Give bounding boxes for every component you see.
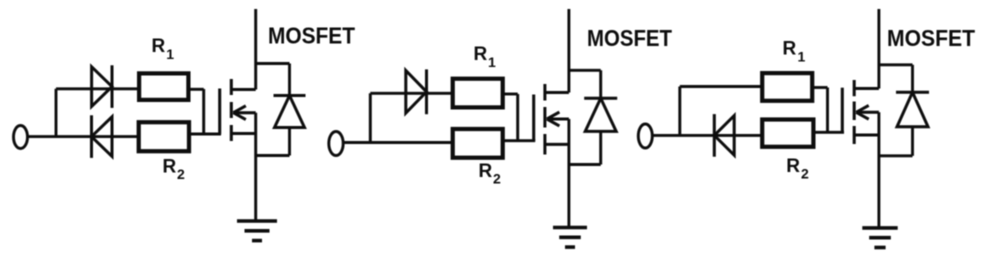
svg-text:2: 2	[493, 170, 501, 186]
diode D4 (bottom, left-pointing)	[714, 114, 734, 157]
svg-text:MOSFET: MOSFET	[587, 25, 672, 51]
wire body-diode bottom tail	[599, 131, 602, 164]
wire body-diode top drop	[288, 64, 291, 96]
wire gate junction vertical	[516, 94, 519, 141]
wire gate junction vertical	[202, 89, 205, 134]
input terminal node 1	[14, 126, 28, 149]
label MOSFET 3	[887, 25, 975, 51]
wire gate junction vertical	[826, 88, 829, 133]
resistor R1	[762, 73, 812, 101]
wire drain to body diode	[879, 63, 913, 66]
wire input to bottom branch	[28, 135, 139, 138]
svg-text:R: R	[163, 156, 177, 177]
wire top branch	[370, 92, 452, 95]
wire source down	[877, 112, 880, 228]
wire body-diode bottom tail	[288, 128, 291, 156]
resistor R1	[453, 79, 503, 108]
wire input to bottom branch	[652, 134, 762, 137]
wire R2 to gate plate	[503, 139, 536, 142]
svg-text:2: 2	[801, 165, 809, 181]
wire top branch	[56, 87, 139, 90]
label R2	[479, 161, 502, 186]
svg-text:1: 1	[166, 46, 174, 62]
svg-text:MOSFET: MOSFET	[887, 25, 975, 51]
label R2	[163, 156, 186, 182]
diode D1 (top, right-pointing)	[92, 65, 112, 108]
svg-text:R: R	[786, 156, 800, 177]
wire drain up	[877, 9, 880, 89]
transistor Q3 (gate plate, channel dashes, drain/source stubs, body arrow)	[842, 80, 879, 144]
wire R1 to gate	[188, 88, 203, 91]
transistor Q2 (gate plate, channel dashes, drain/source stubs, body arrow)	[534, 84, 569, 155]
wire body-diode top drop	[911, 65, 914, 93]
label MOSFET 1	[268, 22, 355, 48]
node junction vertical wire	[369, 93, 372, 142]
wire R1 to gate	[812, 86, 827, 89]
label R1	[783, 38, 806, 64]
label R1	[152, 36, 175, 62]
svg-text:1: 1	[798, 48, 806, 64]
svg-text:2: 2	[177, 166, 185, 182]
label MOSFET 2	[587, 25, 672, 51]
svg-text:R: R	[783, 38, 797, 59]
wire source to body diode	[256, 154, 290, 157]
svg-text:MOSFET: MOSFET	[268, 22, 355, 48]
node junction vertical wire	[55, 89, 58, 137]
wire source down	[254, 113, 257, 221]
resistor R1	[139, 73, 188, 100]
ground 1	[237, 221, 277, 241]
wire body-diode bottom tail	[911, 127, 914, 156]
wire R2 to gate plate	[813, 131, 844, 134]
wire body-diode top drop	[599, 70, 602, 98]
wire R1 to gate	[503, 93, 518, 96]
ground 2	[553, 228, 587, 248]
wire drain up	[567, 9, 570, 93]
diode D3 (top, right-pointing)	[406, 69, 427, 114]
wire drain up	[254, 9, 257, 90]
resistor R2	[762, 120, 813, 147]
resistor R2	[139, 122, 189, 151]
wire top branch	[680, 85, 762, 88]
ground 3	[862, 228, 897, 248]
wire drain to body diode	[569, 69, 601, 72]
wire drain to body diode	[256, 62, 290, 65]
label R1	[474, 44, 497, 70]
body diode DB3 (cathode bar + triangle)	[896, 92, 929, 126]
input terminal node 2	[329, 132, 343, 156]
body diode DB2 (cathode bar + triangle)	[584, 98, 617, 131]
wire input to R2	[343, 141, 453, 144]
wire source down	[567, 119, 570, 228]
input terminal node 3	[638, 124, 652, 148]
node junction vertical wire	[678, 87, 681, 136]
svg-text:R: R	[479, 161, 493, 182]
svg-text:R: R	[152, 36, 166, 57]
svg-text:R: R	[474, 44, 488, 65]
wire source to body diode	[879, 154, 913, 157]
transistor Q1 (gate plate, channel dashes, drain/source stubs, body arrow)	[220, 79, 256, 141]
wire R2 to gate plate	[189, 133, 221, 136]
resistor R2	[453, 129, 503, 158]
svg-text:1: 1	[488, 54, 496, 70]
wire source to body diode	[569, 163, 601, 166]
label R2	[786, 156, 809, 181]
body diode DB1 (cathode bar + triangle)	[274, 96, 306, 128]
diode D2 (bottom, left-pointing)	[92, 115, 113, 158]
